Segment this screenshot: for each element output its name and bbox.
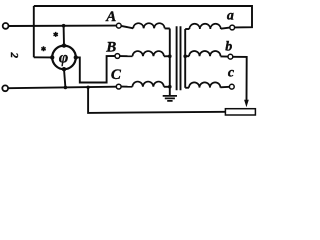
terminal c — [229, 84, 234, 89]
junction branch to rheostat — [86, 86, 89, 89]
wire winding b to terminal b — [221, 55, 228, 57]
wire meter left lead — [34, 56, 52, 58]
junction on phase A wire — [62, 24, 66, 28]
wire winding a to terminal a — [221, 28, 230, 29]
wire B to winding — [120, 55, 133, 57]
wire meter top lead — [63, 26, 65, 46]
svg-text:φ: φ — [59, 50, 68, 67]
svg-text:a: a — [227, 9, 234, 24]
polarity asterisk (left) — [41, 46, 45, 51]
terminal a — [230, 25, 235, 30]
svg-text:c: c — [228, 66, 235, 81]
wire bus to winding b — [185, 55, 189, 57]
svg-text:C: C — [111, 67, 122, 83]
wire meter voltage lead vertical — [33, 6, 35, 57]
terminal C — [116, 84, 121, 89]
junction B on star bus — [168, 54, 172, 58]
winding A primary — [133, 23, 164, 28]
wire C to winding — [121, 86, 132, 88]
terminal A — [116, 23, 121, 28]
junction meter bottom on lower wire — [64, 86, 68, 90]
junction C on star bus — [168, 85, 172, 89]
terminal X2 (bottom-left input) — [2, 85, 8, 91]
svg-text:2: 2 — [8, 52, 20, 59]
wire A to winding — [121, 26, 133, 28]
svg-text:b: b — [225, 39, 232, 54]
wire meter bottom lead — [64, 69, 65, 87]
terminal b — [228, 54, 233, 59]
terminal B — [115, 54, 120, 59]
wire winding B to star bus — [164, 55, 170, 57]
wire winding c to terminal c — [220, 86, 229, 89]
wire branch down and across to rheostat — [88, 87, 225, 113]
meter terminal dot top — [62, 43, 66, 47]
svg-text:A: A — [105, 9, 116, 25]
wire meter right lead zigzag to B — [76, 56, 115, 83]
meter terminal dot left — [50, 55, 54, 59]
polarity asterisk (top) — [54, 32, 58, 37]
meter terminal dot bottom — [62, 67, 66, 71]
winding b secondary — [189, 51, 220, 56]
ground — [163, 96, 177, 101]
phase meter P1 (φ) — [52, 46, 76, 70]
winding c secondary — [189, 82, 220, 87]
wire bus to winding a — [185, 28, 189, 30]
wire lower horizontal to C — [8, 87, 116, 89]
wire phase A horizontal — [9, 25, 117, 27]
meter terminal dot right — [74, 55, 78, 59]
winding C primary — [132, 82, 163, 87]
wire primary star bus — [169, 29, 171, 96]
winding a secondary — [189, 24, 220, 29]
junction b on secondary bus — [183, 54, 187, 58]
winding B primary — [133, 51, 164, 56]
rheostat R — [225, 109, 255, 115]
wire terminal b to wiper — [233, 57, 247, 101]
wire top link to terminal a — [34, 6, 252, 27]
wire winding C to star bus — [164, 86, 170, 88]
wire secondary star bus — [184, 29, 186, 88]
wire winding A to star point — [165, 27, 170, 29]
transformer core — [177, 26, 181, 90]
svg-text:B: B — [105, 40, 116, 56]
wiper arrow onto rheostat — [244, 100, 249, 108]
wire bus to winding c — [185, 87, 189, 89]
terminal X1 (top-left input) — [3, 23, 9, 29]
